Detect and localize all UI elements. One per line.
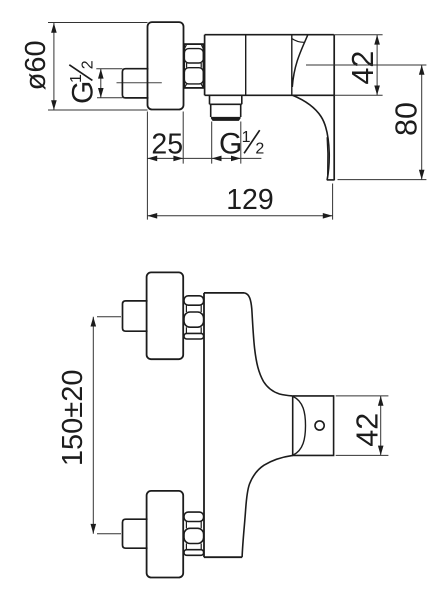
body top edge (204, 292, 244, 294)
bottom hex nut (front view) (184, 512, 204, 555)
dim 150±20 line (92, 317, 94, 534)
inlet pipe stub G1/2 (side view) (122, 69, 148, 98)
body slab (front view) (204, 293, 244, 557)
svg-text:1: 1 (242, 129, 251, 146)
dim G1/2 top extension lines (96, 69, 122, 98)
svg-text:80: 80 (390, 102, 424, 136)
centerline of inlet pipe (117, 82, 162, 84)
spout inner edge (326, 137, 329, 177)
svg-text:G: G (219, 127, 242, 160)
lever handle front edge (292, 35, 308, 87)
lever gap arc (292, 39, 304, 43)
hex nut (side view) (184, 44, 203, 88)
dim 150±20 arrows (91, 317, 97, 534)
svg-text:2: 2 (80, 60, 97, 69)
top inlet pipe (front view) (123, 301, 148, 331)
dim 80 extension lines (306, 65, 426, 180)
dim 42 bottom extension lines (336, 396, 389, 456)
dim ø60 label (20, 40, 52, 90)
handle block (front view) (293, 396, 334, 456)
spout tip bottom (327, 179, 334, 181)
dim ø60 arrows (51, 23, 57, 110)
dim 80 arrows (419, 65, 425, 180)
dim 80 line (421, 65, 423, 180)
svg-text:129: 129 (226, 184, 274, 216)
wall flange / escutcheon (side view) (148, 22, 184, 109)
dim G1/2 bottom arrows (212, 156, 241, 162)
dim 42 top extension lines (334, 35, 383, 96)
dim 129 arrows (147, 213, 332, 219)
dim G1/2 top arrows (98, 69, 104, 98)
dim 25 G1/2 line (147, 157, 261, 159)
dim 42 top arrows (374, 35, 380, 96)
outlet step 1 (210, 95, 242, 104)
svg-text:150±20: 150±20 (57, 370, 89, 467)
bottom wall flange (front view) (147, 491, 184, 578)
upper S-curve to handle (244, 293, 292, 396)
body left edge (203, 293, 205, 557)
dim 129 line (147, 215, 332, 217)
svg-text:ø60: ø60 (20, 40, 52, 90)
body/handle joint line (291, 35, 293, 96)
svg-text:2: 2 (255, 140, 264, 157)
spout outer curve (293, 95, 329, 180)
handle screw hole (315, 421, 324, 430)
handle end arc (293, 397, 305, 456)
dim 150±20 extension lines (97, 317, 121, 534)
cartridge cap joint line (245, 35, 247, 96)
mixer body (side view) (205, 35, 335, 96)
dim ø60 extension lines (48, 23, 148, 111)
dim 25 arrows (147, 156, 183, 162)
top wall flange (front view) (147, 272, 184, 359)
dim 25 / G1/2 shared extension lines (147, 112, 332, 220)
dim G1/2 top line (100, 69, 102, 98)
dim G1/2 bottom label (219, 127, 264, 160)
dim 42 bottom label (351, 413, 385, 447)
top hex nut (front view) (184, 296, 204, 339)
dim 42 top label (346, 51, 380, 85)
svg-text:42: 42 (351, 413, 385, 447)
dim 80 label (390, 102, 424, 136)
dim 150±20 label (57, 370, 89, 467)
svg-text:G: G (67, 81, 100, 104)
svg-text:1: 1 (68, 74, 85, 83)
fixture right edge (side view) (333, 35, 335, 181)
body bottom edge (205, 94, 335, 96)
body top edge + handle top edge (205, 34, 334, 36)
svg-text:25: 25 (151, 128, 183, 160)
body bottom edge (204, 556, 242, 558)
threaded tip band (211, 117, 241, 121)
body left edge (204, 35, 206, 96)
dim 42 bottom line (380, 396, 382, 456)
dim ø60 line (53, 23, 55, 110)
dim 42 top line (376, 35, 378, 95)
dim 42 bottom arrows (378, 396, 384, 456)
lower S-curve from handle (242, 455, 293, 557)
bottom inlet pipe (front view) (123, 519, 148, 548)
svg-text:42: 42 (346, 51, 380, 85)
outlet step 2 (211, 104, 241, 117)
dim G1/2 top label (67, 60, 100, 104)
